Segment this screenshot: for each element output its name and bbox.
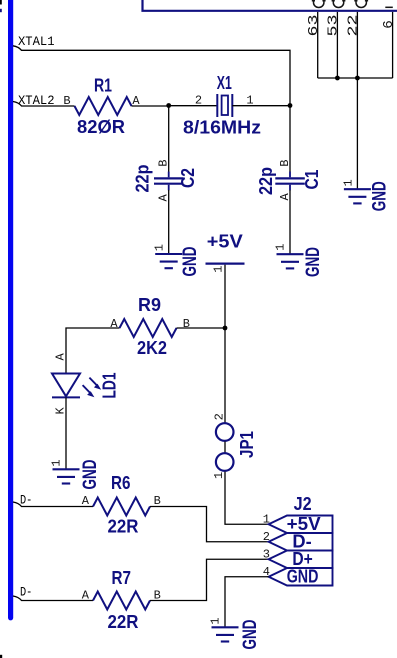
svg-text:GND: GND: [239, 620, 261, 650]
wire node to C1: [289, 106, 291, 173]
svg-text:8/16MHz: 8/16MHz: [183, 117, 261, 138]
resistor R9: [120, 319, 177, 337]
bus bar (blue): [8, 0, 13, 618]
svg-text:A: A: [54, 353, 68, 361]
svg-text:6: 6: [381, 20, 397, 29]
svg-text:C2: C2: [177, 168, 198, 188]
net XTAL2 wire: [13, 102, 75, 107]
svg-text:R9: R9: [138, 294, 161, 315]
svg-text:GND: GND: [79, 460, 101, 490]
svg-text:2: 2: [263, 530, 270, 544]
svg-text:1: 1: [341, 179, 355, 186]
svg-text:53: 53: [326, 15, 342, 37]
svg-text:3: 3: [263, 548, 270, 562]
svg-text:B: B: [157, 160, 171, 167]
net D- (lower) wire: [13, 596, 93, 601]
svg-text:XTAL1: XTAL1: [18, 34, 55, 49]
svg-text:2K2: 2K2: [137, 337, 167, 358]
IC top glyph dash: [385, 6, 393, 8]
LED arrow 1: [89, 378, 101, 390]
wire R9 B to +5V node: [177, 327, 226, 329]
wire between JP1 pads: [224, 442, 226, 453]
svg-text:GND: GND: [287, 566, 319, 587]
svg-text:1: 1: [263, 513, 270, 527]
jumper JP1 pad 2: [216, 423, 234, 441]
svg-text:GND: GND: [368, 181, 390, 211]
svg-text:1: 1: [209, 617, 223, 624]
ground (top right): [344, 189, 371, 203]
svg-text:A: A: [110, 317, 118, 331]
LED arrow 2: [83, 385, 95, 397]
svg-text:63: 63: [306, 15, 322, 37]
crystal X1: [217, 94, 232, 117]
svg-text:2: 2: [213, 413, 227, 420]
+5V supply symbol: [206, 263, 245, 265]
capacitor C2: [154, 172, 184, 191]
svg-text:B: B: [183, 317, 190, 331]
svg-text:GND: GND: [179, 247, 201, 277]
svg-text:R6: R6: [111, 472, 131, 493]
svg-text:B: B: [154, 494, 161, 508]
jumper JP1 pad 1: [216, 453, 234, 471]
svg-text:D-: D-: [20, 584, 32, 599]
junction node XTAL2/C2: [166, 103, 171, 108]
resistor R7: [93, 592, 150, 610]
wire R6 B to J2 pin2: [150, 507, 269, 542]
junction pin53: [335, 76, 340, 81]
capacitor C1: [275, 172, 305, 191]
resistor R1: [75, 97, 132, 115]
svg-text:C1: C1: [301, 170, 322, 190]
svg-text:1: 1: [274, 244, 288, 251]
wire joining pins 63-6: [318, 77, 393, 79]
svg-text:+5V: +5V: [207, 231, 244, 252]
svg-text:A: A: [82, 494, 90, 508]
IC U? box edge (bottom-left corner of chip): [143, 0, 397, 11]
wire JP1 pad1 to J2 pin1: [225, 472, 269, 525]
net D- (upper) wire: [13, 502, 93, 507]
svg-text:82ØR: 82ØR: [77, 116, 125, 137]
IC top glyph 1: [312, 0, 326, 7]
svg-text:XTAL2: XTAL2: [18, 93, 55, 108]
svg-text:JP1: JP1: [236, 431, 257, 458]
wire pin 6: [392, 12, 394, 78]
svg-text:22p: 22p: [131, 165, 152, 193]
wire +5V node down to JP1: [224, 328, 226, 423]
wire C2 to gnd: [168, 190, 170, 254]
svg-text:2: 2: [195, 93, 202, 107]
wire C1 to gnd: [289, 190, 291, 254]
svg-text:22R: 22R: [108, 516, 139, 537]
wire J2 pin4 to gnd: [225, 577, 269, 628]
junction pin22: [355, 76, 360, 81]
wire R7 B to J2 pin3: [150, 559, 269, 600]
wire pin 63: [317, 12, 319, 78]
svg-text:R7: R7: [112, 567, 132, 588]
svg-text:1: 1: [152, 244, 166, 251]
wire LED cathode to gnd: [65, 398, 67, 470]
wire +5V down to R9 node: [224, 265, 226, 328]
svg-text:22R: 22R: [108, 611, 139, 632]
svg-text:1: 1: [50, 459, 64, 466]
junction R9/+5V/JP1: [223, 326, 228, 331]
ground (bottom): [212, 627, 239, 641]
svg-text:1: 1: [212, 472, 226, 479]
svg-text:J2: J2: [294, 493, 312, 514]
svg-text:X1: X1: [217, 72, 232, 93]
edge mark top navy: [0, 9, 2, 12]
svg-text:1: 1: [212, 266, 226, 273]
ground (under C1): [277, 254, 304, 268]
wire crystal pin1 to node: [232, 105, 290, 107]
svg-text:B: B: [278, 160, 292, 167]
wire pin 22 down to GND: [356, 12, 358, 189]
net XTAL1 wire: [13, 46, 290, 106]
svg-text:D-: D-: [20, 493, 32, 508]
IC top glyph 2: [332, 0, 346, 8]
svg-text:22p: 22p: [255, 167, 276, 195]
junction node XTAL1/C1: [288, 103, 293, 108]
wire node to crystal pin2: [169, 105, 218, 107]
connector J2: [269, 516, 333, 586]
ground (under C2): [155, 254, 182, 268]
edge mark bottom black: [0, 655, 2, 658]
ground (under LED): [53, 469, 80, 483]
resistor R6: [93, 498, 150, 516]
svg-text:22: 22: [346, 15, 362, 37]
IC top glyph 3: [354, 0, 368, 8]
edge mark top black: [0, 0, 2, 5]
wire R9 left: [66, 328, 120, 374]
svg-text:LD1: LD1: [98, 373, 119, 399]
wire node to C2: [168, 106, 170, 173]
svg-text:GND: GND: [302, 247, 324, 277]
wire R1 A to node: [132, 105, 169, 107]
svg-text:R1: R1: [94, 75, 112, 96]
svg-text:1: 1: [246, 93, 253, 107]
svg-text:B: B: [63, 94, 70, 108]
svg-text:A: A: [82, 588, 90, 602]
LED LD1: [52, 374, 80, 398]
wire pin 53: [336, 12, 338, 78]
